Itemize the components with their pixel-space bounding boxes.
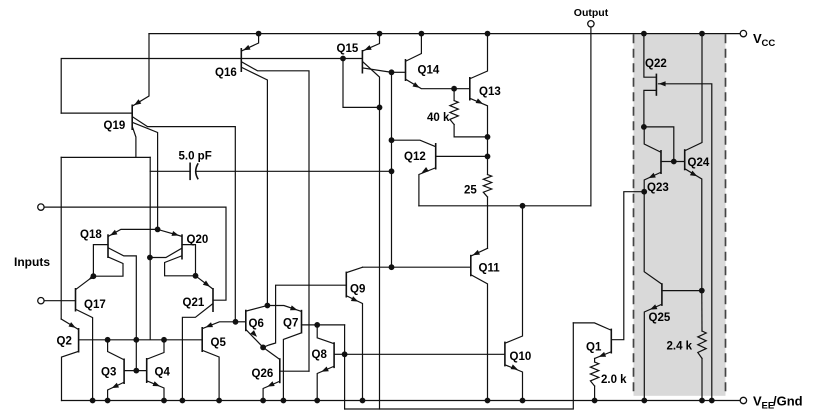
svg-text:Q3: Q3 [101, 367, 116, 379]
junction Q25 base / 2.4k node [699, 288, 705, 294]
junction tail node [155, 227, 161, 233]
svg-text:Q18: Q18 [80, 229, 102, 241]
junction Q12 base node [485, 154, 491, 160]
wire Q7 base [302, 324, 345, 326]
transistor Q15 [337, 43, 363, 74]
wire Q23 emitter to Q25 collector [644, 192, 661, 284]
junction Q13 collector rail [485, 31, 491, 37]
transistor Q22 [645, 58, 667, 96]
wire Q23-Q24 base tie [661, 161, 685, 163]
junction Q4 collector node [161, 337, 167, 343]
svg-text:Q7: Q7 [283, 318, 298, 330]
wire Q3 collector [108, 340, 124, 360]
svg-text:Q23: Q23 [647, 182, 669, 194]
junction Q8 emitter rail [314, 398, 320, 404]
wire Q1 emitter [595, 352, 611, 359]
VEE/Gnd terminal [740, 394, 802, 412]
junction Q3 collector node [105, 337, 111, 343]
svg-text:Q13: Q13 [479, 86, 501, 98]
svg-text:CC: CC [762, 38, 776, 49]
wire Q6 emitter [246, 330, 263, 347]
wire Q13 base [454, 88, 470, 90]
wire Q4 collector [147, 340, 164, 359]
wire output vertical [590, 27, 592, 206]
svg-text:Q1: Q1 [586, 342, 602, 354]
junction Q22 base node [641, 124, 647, 130]
wire Q26 base [280, 370, 309, 372]
junction Q6 emitter node [260, 345, 266, 351]
transistor Q8 [312, 342, 335, 368]
wire Q13 emitter [470, 98, 487, 156]
wire Q6 base [236, 321, 246, 323]
transistor Q11 [471, 255, 500, 276]
transistor Q9 [346, 272, 365, 298]
junction Q7 base node [314, 322, 320, 328]
wire output net horizontal [419, 205, 591, 207]
wire Q21 collector [182, 304, 212, 401]
transistor Q17 [76, 288, 106, 312]
wire Q16 collector2 [242, 68, 268, 306]
junction Q23 emitter node [641, 189, 647, 195]
junction Q15 collector loop [377, 105, 383, 111]
wire Q1 base [611, 192, 644, 340]
svg-text:2.4 k: 2.4 k [667, 341, 693, 353]
wire Q15 emitter [363, 34, 380, 51]
svg-text:Output: Output [574, 7, 609, 19]
wire VCC top rail [149, 33, 740, 35]
wire Q5 collector [203, 351, 219, 401]
Output terminal and label [574, 7, 609, 27]
wire Q9 emitter [347, 296, 363, 401]
junction net A / Q15 loop [340, 56, 346, 62]
wire Q12 base [436, 155, 488, 157]
transistor Q18 [80, 229, 108, 258]
wire Q8 emitter [317, 367, 333, 401]
junction Q12 collector node [389, 137, 395, 143]
svg-text:/Gnd: /Gnd [773, 394, 803, 409]
wire Q20 base loop [182, 245, 196, 276]
wire Q25 emitter [644, 304, 661, 400]
svg-text:Q26: Q26 [252, 368, 274, 380]
transistor Q26 [252, 358, 280, 383]
wire Q14 collector [406, 34, 421, 61]
transistor Q6 [246, 310, 264, 332]
svg-text:Inputs: Inputs [14, 255, 50, 269]
svg-text:2.0 k: 2.0 k [601, 374, 627, 386]
wire Q22 collector to VCC [644, 34, 657, 78]
wire Q10 emitter [506, 364, 523, 400]
junction Q5 emitter node [233, 319, 239, 325]
svg-text:Q14: Q14 [418, 65, 440, 77]
junction Q26 emitter rail [260, 398, 266, 404]
junction 2.0k rail [592, 398, 598, 404]
transistor Q1 [586, 329, 611, 354]
wire Q26 emitter [263, 381, 279, 400]
wire Q16 collector1 to Q26 base [242, 62, 309, 371]
transistor Q5 [202, 327, 226, 352]
junction Q6 collector node [265, 303, 271, 309]
wire Q25 base [662, 290, 702, 292]
wire Q19 base [61, 112, 132, 114]
wire Q17 emitter [76, 274, 96, 290]
wire Q2 collector to rail end [62, 352, 79, 401]
junction mirror base tie [671, 159, 677, 165]
svg-text:Q16: Q16 [215, 67, 237, 79]
transistor Q12 [404, 143, 436, 170]
wire Q18 collector2 loop [93, 257, 123, 276]
junction Q16 emitter rail [256, 31, 262, 37]
Inputs label [14, 255, 50, 269]
wire Q4 emitter [147, 381, 164, 401]
junction 40k / Q13 emitter [485, 134, 491, 140]
wire Q18 emitter [109, 229, 158, 236]
wire Q21 emitter [196, 276, 213, 289]
wire Q2 emitter [61, 319, 78, 329]
wire base net vertical [344, 325, 346, 409]
resistor R3 2.0 k [590, 359, 627, 401]
junction mirror base node [133, 368, 139, 374]
wire under-rail net [345, 323, 574, 409]
wire Q20 collector2 loop [165, 256, 196, 276]
transistor Q14 [406, 59, 440, 81]
svg-text:Q24: Q24 [688, 157, 710, 169]
wire Q1 collector [573, 323, 610, 330]
transistor Q23 [647, 150, 669, 194]
svg-text:Q9: Q9 [350, 284, 365, 296]
wire node y157 horizontal [61, 156, 150, 158]
svg-text:25: 25 [464, 185, 477, 197]
junction Q8 base node [342, 351, 348, 357]
transistor Q3 [101, 359, 124, 385]
wire Q26 collector [263, 347, 279, 359]
svg-text:Q10: Q10 [510, 351, 532, 363]
junction mirror tie node [133, 337, 139, 343]
svg-text:Q15: Q15 [337, 43, 359, 55]
wire Q15 diode loop [343, 59, 380, 108]
junction Q7 collector rail [281, 398, 287, 404]
wire bias vertical x391 [391, 72, 393, 267]
capacitor C1 5.0 pF [150, 151, 391, 180]
transistor Q10 [505, 342, 531, 367]
wire base tie riser [644, 127, 674, 162]
wire Q11 base [363, 266, 471, 268]
wire Q14 emitter [406, 80, 454, 89]
svg-text:40 k: 40 k [427, 112, 450, 124]
wire Q13 collector [470, 34, 487, 79]
wire Q19 collector2 tail [133, 123, 158, 230]
wire input2 to Q17 base [44, 300, 75, 302]
wire x150 vertical [149, 157, 151, 339]
wire Q19 collector3 [133, 128, 136, 157]
svg-text:Q25: Q25 [649, 312, 671, 324]
junction Q18 diode node [91, 273, 97, 279]
input terminal 1 [38, 204, 44, 210]
junction Q20 collector1 node [147, 255, 153, 261]
wire Q16 emitter [242, 34, 259, 51]
wire Q23 collector [644, 127, 660, 152]
wire Q20 collector1 [150, 249, 182, 258]
junction Q22 emitter rail [709, 398, 715, 404]
junction Q22 collector rail [641, 31, 647, 37]
wire Q12 emitter to output net [419, 167, 435, 206]
wire Q8 collector [317, 325, 333, 344]
svg-text:Q4: Q4 [155, 367, 171, 379]
wire Q5 emitter [203, 322, 236, 329]
wire Q7 collector [283, 333, 301, 401]
wire Q3 emitter [108, 383, 124, 401]
svg-text:Q2: Q2 [57, 336, 72, 348]
transistor Q2 [57, 328, 79, 353]
wire input1 to Q21 base [44, 207, 226, 300]
wire Q24 emitter [685, 169, 702, 291]
wire VEE bottom rail [62, 400, 741, 402]
svg-text:Q12: Q12 [404, 151, 426, 163]
wire Q3-Q4 base line [124, 370, 147, 372]
wire Q17 collector [76, 310, 93, 401]
wire Q22 emitter [658, 81, 711, 400]
junction Q9 emitter rail [360, 398, 366, 404]
junction Q17 collector rail [90, 398, 96, 404]
wire net A bias rail [61, 59, 362, 114]
transistor Q19 [104, 105, 133, 133]
junction Q15 emitter rail [377, 31, 383, 37]
wire Q19 emitter to VCC [133, 34, 149, 106]
wire Q15 collector1 long vertical [363, 62, 380, 409]
wire Q19 collector1 to Q5 node [133, 117, 236, 322]
svg-text:Q17: Q17 [84, 299, 106, 311]
transistor Q21 [183, 288, 214, 312]
junction Q10 emitter rail [520, 398, 526, 404]
wire Q23 emitter [644, 173, 660, 192]
transistor Q7 [283, 310, 302, 334]
junction Q20 diode node [193, 273, 199, 279]
wire Q14 base [392, 71, 406, 73]
junction output / Q10 collector [520, 203, 526, 209]
junction Q13 base node [451, 86, 457, 92]
transistor Q13 [470, 77, 501, 101]
resistor R2 25 [464, 156, 492, 248]
svg-text:5.0 pF: 5.0 pF [179, 151, 212, 163]
junction Q21 collector rail [180, 398, 186, 404]
svg-text:Q5: Q5 [211, 337, 227, 349]
wire Q24 collector to VCC [685, 34, 702, 151]
wire Q22 base leg [644, 90, 657, 127]
output stage shaded region [634, 34, 726, 396]
transistor Q4 [147, 358, 171, 383]
wire Q18 base loop [93, 245, 108, 277]
wire Q20 emitter from tail [158, 229, 182, 236]
transistor Q24 [685, 149, 710, 170]
junction Q14 base node [389, 69, 395, 75]
junction Q11 collector rail [485, 398, 491, 404]
junction Q5 collector rail [216, 398, 222, 404]
svg-text:Q8: Q8 [312, 349, 328, 361]
junction Q11 base / bias [389, 264, 395, 270]
wire Q11 emitter from 25 [471, 248, 487, 256]
junction Q14 collector rail [419, 31, 425, 37]
svg-text:Q21: Q21 [183, 297, 205, 309]
wire Q7 emitter [267, 305, 301, 311]
wire Q10 collector [506, 206, 523, 343]
wire Q9 base from Q6 node [263, 285, 346, 347]
junction Q24 collector rail [699, 31, 705, 37]
wire Q12 collector [392, 140, 436, 146]
wire Q8 base [334, 353, 345, 355]
svg-text:Q6: Q6 [249, 318, 264, 330]
resistor R4 2.4 k [667, 291, 707, 401]
wire input clamp vertical to Q2 emitter [60, 157, 62, 319]
transistor Q25 [649, 283, 671, 324]
junction Q25 emitter rail [641, 398, 647, 404]
svg-text:Q19: Q19 [104, 120, 126, 132]
junction 2.4k rail [699, 398, 705, 404]
wire Q2-Q5 base line [79, 339, 203, 341]
wire Q18 collector1 to mirror [109, 248, 137, 371]
transistor Q20 [182, 234, 208, 260]
input terminal 2 [38, 298, 44, 304]
wire Q15 collector2 [363, 68, 392, 72]
dashed boundary left [633, 34, 635, 396]
junction cap net / bias vertical [389, 168, 395, 174]
dashed boundary right [725, 34, 727, 396]
wire Q11 collector to VEE [471, 275, 487, 401]
wire Q9 collector [347, 267, 363, 272]
resistor R1 40 k [427, 89, 488, 137]
transistor Q16 [215, 48, 241, 79]
wire Q10 base line [345, 353, 505, 355]
junction Q4 emitter rail [161, 398, 167, 404]
VCC terminal [740, 30, 775, 49]
svg-text:Q22: Q22 [645, 58, 667, 70]
junction Q3 emitter rail [105, 398, 111, 404]
svg-text:Q11: Q11 [479, 263, 501, 275]
wire Q6 collector [246, 306, 267, 312]
